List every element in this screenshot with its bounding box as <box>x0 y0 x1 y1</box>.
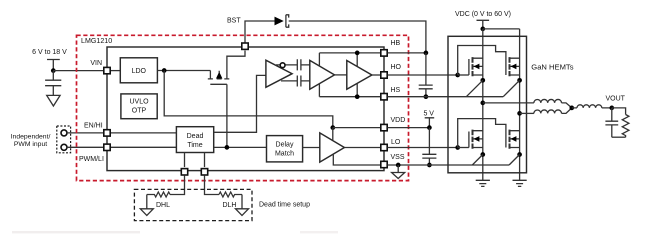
resistor DHL R1 <box>147 192 170 197</box>
svg-text:LO: LO <box>391 139 401 146</box>
supply terminal VDC <box>477 20 490 29</box>
node phase junction <box>569 106 574 111</box>
wire dead time LI out <box>214 146 267 148</box>
node HO gate rail <box>455 73 460 78</box>
node HB bootstrap <box>424 51 429 56</box>
svg-text:Delay: Delay <box>276 141 294 148</box>
node Q2 source <box>517 78 522 83</box>
block LDO U1a <box>120 58 157 83</box>
LMG1210 dashed boundary <box>77 35 409 180</box>
wire Q2 source diagonal to HS <box>503 80 519 96</box>
svg-text:Match: Match <box>275 150 294 157</box>
node U4 HB tap <box>355 51 360 56</box>
input terminal PWM/LI circle <box>61 144 67 150</box>
wire EN/HI to dead time <box>111 132 177 134</box>
dead time setup dashed box <box>134 189 252 220</box>
input terminal EN/HI circle <box>61 130 67 136</box>
transistor bootstrap switch Q5 <box>208 51 245 85</box>
label VDD <box>391 117 406 124</box>
wire phase A to junction <box>562 103 572 108</box>
ground input supply <box>47 95 60 106</box>
node Q3 source <box>480 152 485 157</box>
faint cropped caption remnant mid <box>300 231 338 233</box>
wire EN/HI input to pin <box>67 132 103 134</box>
buffer U2 level-shift inverter <box>266 60 292 87</box>
wire VDC to Q2 drain <box>483 28 520 30</box>
faint cropped caption remnant left <box>12 231 140 233</box>
svg-text:GaN HEMTs: GaN HEMTs <box>531 63 573 72</box>
wire U2 upper output <box>276 64 297 66</box>
svg-text:PWM/LI: PWM/LI <box>79 156 104 163</box>
label DHL <box>156 202 170 209</box>
wire bootstrap gate to dead time <box>226 84 228 147</box>
pin HO <box>381 72 387 78</box>
diode bootstrap D1 <box>275 15 289 27</box>
block dead time <box>176 127 213 153</box>
svg-text:6 V to 18 V: 6 V to 18 V <box>32 49 67 56</box>
wire dead time HI out to level shifter <box>214 75 266 132</box>
svg-text:PWM input: PWM input <box>14 141 47 148</box>
wire Q1 source diagonal to HS <box>466 80 483 96</box>
wire Q4 source diagonal to VSS <box>509 155 519 166</box>
pin HS <box>381 94 387 100</box>
wire BST riser <box>245 21 275 43</box>
capacitor input C1 <box>45 71 61 96</box>
wire HO over-route to Q2 gate <box>458 46 506 76</box>
label EN/HI <box>84 122 103 129</box>
inductor phase B <box>534 110 562 113</box>
wire phase B output <box>520 112 534 114</box>
wire LO pin to gates <box>388 147 458 149</box>
capacitor load CL <box>605 108 618 137</box>
wire Q3 source diagonal to VSS <box>472 155 483 166</box>
transistor Q2 GaN <box>510 57 520 76</box>
ground Q4 <box>513 180 527 186</box>
ground VSS <box>392 165 405 179</box>
wire VIN pin to LDO <box>111 70 121 72</box>
supply label 6V-18V <box>32 49 67 56</box>
svg-text:5 V: 5 V <box>423 111 434 118</box>
wire LDO output <box>157 70 210 72</box>
wire internal HS rail <box>319 96 380 98</box>
node switch phase B <box>517 111 522 116</box>
svg-text:VSS: VSS <box>391 154 405 161</box>
IC inner outline <box>107 47 384 171</box>
pin DLH <box>201 169 207 175</box>
capacitor bootstrap CB <box>419 53 433 97</box>
wire U4 supply taps <box>356 53 358 97</box>
svg-text:Dead: Dead <box>187 133 204 140</box>
wire VOUT to load resistor <box>612 108 626 115</box>
node VDC <box>480 27 485 32</box>
wire phase A output <box>483 102 534 104</box>
GaN HEMTs box <box>448 36 527 173</box>
node switch phase A <box>480 101 485 106</box>
node VDD tap <box>330 125 335 130</box>
wire DHL drop <box>184 153 186 168</box>
wire load bottom <box>612 136 626 138</box>
wire phase B to junction <box>562 108 572 114</box>
inductor phase A <box>534 99 562 102</box>
pin VIN <box>104 67 110 73</box>
wire caps to U3 <box>301 65 310 81</box>
capacitor VDD C5 <box>422 128 436 165</box>
svg-text:Dead time setup: Dead time setup <box>259 202 310 209</box>
svg-text:EN/HI: EN/HI <box>84 122 103 129</box>
pin BST <box>242 43 248 49</box>
pin LO <box>381 144 387 150</box>
label VSS <box>391 154 405 161</box>
node Q4 source <box>517 152 522 157</box>
label dead time setup <box>259 202 310 209</box>
buffer U3 high side <box>310 60 335 89</box>
wire U3 supply taps <box>318 53 320 97</box>
supply terminal 5V <box>425 118 435 128</box>
wire VDD pin to 5V <box>388 127 430 129</box>
wire U3 to U4 <box>335 74 347 76</box>
node Q1 source <box>480 78 485 83</box>
wire LO over-route to Q4 gate <box>458 119 506 148</box>
svg-text:HB: HB <box>391 40 401 47</box>
wire HO pin to gates <box>388 74 458 76</box>
label PWM/LI <box>79 156 104 163</box>
block delay match <box>267 136 303 162</box>
ground DLH <box>236 195 249 216</box>
pin EN/HI <box>104 130 110 136</box>
svg-text:HO: HO <box>391 64 402 71</box>
capacitor level shift lower <box>297 76 301 87</box>
capacitor level shift upper <box>297 59 301 70</box>
label Independent/PWM input <box>11 134 51 148</box>
label HS <box>391 87 401 94</box>
resistor DLH R2 <box>219 192 242 197</box>
svg-text:Time: Time <box>187 142 202 149</box>
wire supply to VIN pin <box>53 70 103 72</box>
label 5V <box>423 111 434 118</box>
block UVLO OTP <box>121 94 157 119</box>
svg-text:VIN: VIN <box>90 60 102 67</box>
wire U2 lower output <box>281 80 297 82</box>
node LDO output <box>162 68 167 73</box>
inductor output L1 <box>572 105 612 108</box>
wire Q2 drain column <box>519 29 521 180</box>
buffer U5 low side driver <box>320 133 345 162</box>
node VSS ground junction <box>396 163 401 168</box>
label DLH <box>222 202 236 209</box>
label HB <box>391 40 401 47</box>
svg-text:LDO: LDO <box>132 68 147 75</box>
wire U5 supply taps <box>333 128 381 165</box>
label BST <box>227 17 241 24</box>
wire HB pin to bootstrap cap <box>388 52 426 54</box>
label LMG1210 <box>81 37 112 45</box>
svg-text:VOUT: VOUT <box>606 96 626 103</box>
node U4 HS tap <box>355 94 360 99</box>
svg-text:VDC (0 V to 60 V): VDC (0 V to 60 V) <box>455 11 511 18</box>
wire PWM/LI to dead time <box>111 146 177 148</box>
svg-text:OTP: OTP <box>132 108 147 115</box>
supply terminal 6V-18V <box>47 60 60 71</box>
node bootstrap cap to HS <box>424 94 429 99</box>
wire diode to HB node <box>289 21 426 53</box>
node VIN supply junction <box>51 68 56 73</box>
label GaN HEMTs <box>531 63 573 72</box>
wire HS pin to sources <box>388 96 504 98</box>
wire U4 to HO pin <box>372 74 381 76</box>
svg-text:DLH: DLH <box>222 202 236 209</box>
resistor load RL <box>622 115 629 138</box>
label VOUT <box>606 96 626 103</box>
label HO <box>391 64 402 71</box>
ground DHL <box>140 195 153 216</box>
svg-text:HS: HS <box>391 87 401 94</box>
svg-text:Independent/: Independent/ <box>11 134 51 141</box>
wire VDD to pin <box>333 127 381 129</box>
pin HB <box>381 50 387 56</box>
wire LO rail to Q3 gate <box>458 147 469 149</box>
node VDD cap to VSS <box>427 163 432 168</box>
wire VDC to Q1 drain column <box>482 29 484 180</box>
svg-text:UVLO: UVLO <box>129 99 149 106</box>
wire internal VDD rail <box>164 71 333 128</box>
pin VSS <box>381 161 387 167</box>
wire delay match to U5 <box>303 147 320 149</box>
svg-text:LMG1210: LMG1210 <box>81 37 112 45</box>
node LI gate junction <box>225 145 230 150</box>
label VDC supply <box>455 11 511 18</box>
wire PWM/LI input to pin <box>67 146 103 148</box>
input connector dotted box <box>57 126 71 153</box>
wire DHL to resistor <box>170 175 185 194</box>
node VDD 5V junction <box>427 125 432 130</box>
pin PWM/LI <box>104 144 110 150</box>
label VIN <box>90 60 102 67</box>
buffer U4 high side driver <box>347 61 372 90</box>
svg-text:BST: BST <box>227 17 241 24</box>
pin VDD <box>381 124 387 130</box>
svg-text:DHL: DHL <box>156 202 170 209</box>
svg-text:VDD: VDD <box>391 117 406 124</box>
wire DLH to resistor <box>205 175 220 194</box>
wire DLH drop <box>204 153 206 168</box>
node VOUT <box>609 106 614 111</box>
label LO <box>391 139 401 146</box>
wire internal HB rail <box>319 52 380 54</box>
inverter bubble <box>280 63 285 68</box>
node LO gate rail <box>455 145 460 150</box>
transistor Q1 GaN <box>469 57 483 76</box>
transistor Q3 GaN <box>469 130 483 149</box>
wire VSS pin to sources <box>388 164 510 166</box>
pin DHL <box>181 169 187 175</box>
ground Q3 <box>476 180 490 186</box>
wire HO rail to Q1 gate <box>458 74 469 76</box>
transistor Q4 GaN <box>510 130 520 149</box>
wire U5 to LO pin <box>344 147 380 149</box>
